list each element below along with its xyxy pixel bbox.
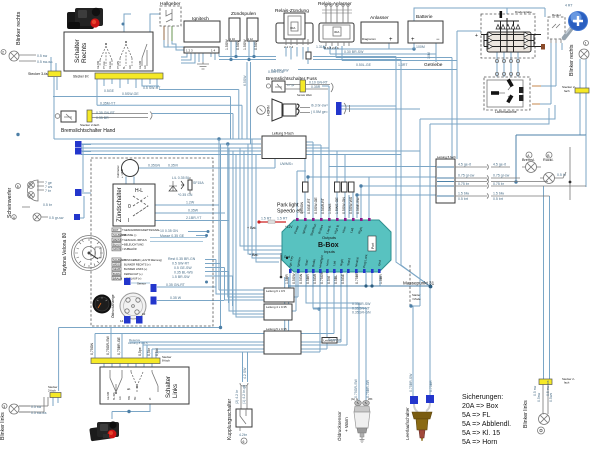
- svg-text:Inputs: Inputs: [324, 249, 335, 254]
- wire leitung boxes feeders from bbox: [290, 273, 306, 311]
- wire gray vertical 570: [569, 147, 571, 200]
- switch symbols inside Schalter rechts: [97, 41, 147, 69]
- svg-text:0.5GR: 0.5GR: [313, 273, 317, 284]
- wire Ignitech strip grounds: [199, 53, 203, 62]
- wire to leerlauf square 1: [413, 306, 420, 396]
- svg-text:0,5pe: 0,5pe: [138, 347, 142, 356]
- wire anlasser battery row 4: [342, 46, 457, 61]
- wire bbox left gnd drop long: [285, 277, 289, 341]
- svg-text:GELB: GELB: [113, 267, 120, 271]
- svg-text:1.5 RT: 1.5 RT: [261, 217, 272, 221]
- wire kupplung leads to box: [241, 386, 247, 409]
- wire cockpit table rows right: [157, 232, 264, 301]
- svg-text:0,5br: 0,5br: [147, 347, 151, 356]
- svg-text:0.5VI: 0.5VI: [327, 276, 331, 284]
- svg-text:8-fach: 8-fach: [162, 359, 170, 363]
- wire bus line 2: [81, 143, 261, 145]
- svg-text:WEISS: WEISS: [113, 238, 122, 242]
- wire schalter links bottom out: [112, 404, 150, 419]
- lamp Blinker links right: [523, 377, 575, 434]
- svg-text:4.7 ge: 4.7 ge: [287, 83, 295, 87]
- svg-text:0,75GR-SW: 0,75GR-SW: [106, 335, 110, 355]
- gauge Öldruckanzeige: [93, 294, 116, 318]
- wire cockpit drop 4: [233, 151, 264, 314]
- svg-text:0.35GN: 0.35GN: [148, 164, 161, 168]
- wire bus line 1: [54, 138, 261, 140]
- svg-text:Leitung 8 x 0.5: Leitung 8 x 0.5: [128, 341, 148, 345]
- node junction schalter links: [127, 410, 130, 413]
- wire coil labels: [225, 39, 258, 50]
- connector pins blue left: [75, 141, 82, 148]
- svg-text:0.35 W: 0.35 W: [170, 296, 182, 300]
- svg-text:Outputs: Outputs: [322, 235, 336, 240]
- svg-text:30A: 30A: [290, 26, 295, 30]
- switch Zündschalter: [113, 184, 155, 226]
- svg-text:+ USB: + USB: [120, 169, 124, 178]
- svg-text:YH-GE: YH-GE: [103, 61, 106, 69]
- harness Leitung 9-fach: [262, 132, 306, 167]
- svg-text:BLINKER RECHTS (+): BLINKER RECHTS (+): [124, 263, 151, 267]
- svg-text:0.5 brt: 0.5 brt: [458, 197, 468, 201]
- svg-text:1.5WS: 1.5WS: [328, 203, 332, 214]
- wire bus through harness to bbox top pins: [300, 139, 345, 218]
- svg-text:/ Mode: / Mode: [412, 297, 421, 301]
- svg-text:Leitung 5 x 0.35: Leitung 5 x 0.35: [266, 327, 287, 331]
- svg-text:14: 14: [120, 319, 124, 323]
- svg-text:Regler: Regler: [552, 13, 561, 17]
- svg-text:0.5GE: 0.5GE: [341, 273, 345, 284]
- svg-text:0.35R: 0.35R: [311, 85, 321, 89]
- svg-text:4.5 ge-rt: 4.5 ge-rt: [458, 163, 471, 167]
- wire coil bus 2: [219, 59, 276, 61]
- sensor Öldrucksensor: [336, 397, 373, 443]
- svg-text:1.5BR: 1.5BR: [379, 274, 383, 284]
- wire labels under bbox: [285, 271, 383, 284]
- svg-text:0.5GN: 0.5GN: [299, 273, 303, 284]
- wire Schalter rechts bar lower run: [142, 79, 239, 139]
- svg-text:GR: GR: [119, 396, 122, 400]
- wire horn to right: [341, 106, 420, 109]
- svg-text:GE-SW: GE-SW: [139, 60, 142, 69]
- svg-text:7 br: 7 br: [45, 189, 52, 193]
- fuse F1: [303, 182, 309, 192]
- wire getriebe ground: [435, 54, 437, 62]
- meter Voltmeter + USB: [116, 160, 139, 179]
- wire gnd bbox down: [280, 253, 282, 277]
- svg-text:GESCHW.-IMPULS: GESCHW.-IMPULS: [124, 238, 147, 242]
- svg-text:Port: Port: [371, 243, 375, 249]
- svg-text:Masse 0.35 GE: Masse 0.35 GE: [160, 234, 185, 238]
- wire blinker links bottom stubs: [19, 397, 48, 412]
- B-Box top pins: [293, 218, 370, 236]
- wire bus line 4: [81, 150, 261, 152]
- connector Stecker 2-fach (Blinker rechts): [562, 85, 589, 93]
- svg-text:Bremslichtschalter Hand: Bremslichtschalter Hand: [61, 128, 115, 134]
- svg-text:+: +: [389, 37, 393, 43]
- harness Leitung 5-fach: [436, 155, 456, 203]
- svg-text:0.5 sw: 0.5 sw: [31, 405, 42, 409]
- svg-text:0.5BR: 0.5BR: [306, 274, 310, 284]
- svg-text:0.30 BR-SW: 0.30 BR-SW: [344, 50, 364, 54]
- node junction bracket dot: [122, 23, 125, 26]
- svg-text:0.75 gr-sw: 0.75 gr-sw: [458, 174, 475, 178]
- svg-text:BRAUN: BRAUN: [113, 276, 122, 280]
- wire right lamp feed vertical: [585, 135, 587, 187]
- svg-text:0.35W: 0.35W: [188, 209, 199, 213]
- svg-text:+: +: [475, 33, 478, 39]
- svg-text:0.5 SW-RT: 0.5 SW-RT: [172, 262, 190, 266]
- svg-text:+12V: +12V: [285, 225, 293, 229]
- wire cockpit drop 1: [219, 139, 264, 290]
- svg-text:(G) G: (G) G: [351, 397, 358, 401]
- icon magnifier: [564, 11, 588, 38]
- wire zündschalter rows right: [155, 205, 229, 221]
- svg-text:0.10 GN-RT: 0.10 GN-RT: [309, 81, 329, 85]
- svg-text:I: I: [128, 218, 129, 224]
- switch Leerlaufschalter: [405, 395, 434, 441]
- svg-text:fach: fach: [564, 381, 570, 385]
- svg-text:Blinker links: Blinker links: [523, 400, 529, 428]
- node junction 411: [409, 304, 412, 307]
- wire bbox right pin up: [349, 177, 369, 218]
- wire Ignitech strip hooks: [181, 53, 215, 63]
- svg-text:0.5 brt: 0.5 brt: [493, 197, 503, 201]
- svg-text:Speedo etc.: Speedo etc.: [277, 209, 305, 215]
- svg-text:0.5 sw-ws: 0.5 sw-ws: [37, 60, 53, 64]
- wire park light red: [259, 221, 286, 223]
- wire table row drops: [216, 260, 264, 307]
- svg-text:ib.3 br-sw=: ib.3 br-sw=: [311, 104, 328, 108]
- wire right feeders down to Leitung 5-fach: [452, 58, 457, 160]
- svg-text:1.5SW: 1.5SW: [225, 39, 229, 50]
- svg-text:Batterie: Batterie: [416, 14, 433, 20]
- battery Batterie: [408, 14, 443, 43]
- switch unit Schalter rechts: [64, 32, 153, 71]
- svg-text:Blinker rechts: Blinker rechts: [16, 11, 22, 45]
- svg-text:RE-GE: RE-GE: [109, 61, 112, 69]
- wire bar feeders extra: [111, 328, 122, 358]
- wire oil sensor run 2: [313, 273, 366, 402]
- connector pins blue cockpit: [124, 278, 131, 285]
- node junction 319: [317, 307, 320, 310]
- svg-text:0.5GE: 0.5GE: [104, 89, 115, 93]
- svg-text:0.35M-YT: 0.35M-YT: [100, 102, 116, 106]
- svg-text:0.5SW: 0.5SW: [292, 273, 296, 284]
- motor Anlasser: [361, 15, 398, 43]
- svg-text:4 RT: 4 RT: [565, 4, 573, 8]
- table wire colors upper: [112, 228, 185, 251]
- harness Leitung 5x0.35: [264, 327, 341, 354]
- wire bus line 5: [81, 154, 261, 156]
- diode and fuse symbols cockpit: [169, 176, 204, 197]
- wire schalter links bar stubs into box: [104, 363, 152, 367]
- svg-text:1.5WS-GE: 1.5WS-GE: [335, 197, 339, 214]
- svg-text:10M: 10M: [427, 52, 431, 59]
- svg-text:0.5 sw-ws: 0.5 sw-ws: [546, 380, 550, 396]
- connector photo top-left: [67, 8, 103, 29]
- svg-text:1.5 blw: 1.5 blw: [458, 192, 470, 196]
- wire kupplung drop: [243, 352, 248, 382]
- svg-text:0.35 BR: 0.35 BR: [96, 116, 109, 120]
- svg-text:5A => Abblendl.: 5A => Abblendl.: [462, 421, 511, 428]
- connector round sensor plug: [120, 282, 146, 324]
- svg-text:fach: fach: [564, 89, 570, 93]
- lamp Blinker rechts (right edge): [569, 41, 589, 77]
- svg-text:0.5 sw-ws: 0.5 sw-ws: [31, 411, 47, 415]
- wire right vertical 396: [396, 57, 431, 287]
- fuse F2: [335, 182, 341, 192]
- sensor Hallgeber: [160, 1, 181, 26]
- switch unit Schalter links: [100, 367, 189, 404]
- svg-text:Leitung 6 x 0.5: Leitung 6 x 0.5: [266, 289, 285, 293]
- wire loop Bremslicht Hand enclosure: [53, 97, 231, 140]
- wire right big L to massepunkt: [516, 135, 586, 182]
- svg-text:1 16: 1 16: [230, 37, 236, 41]
- wire anlasser battery row 1: [324, 46, 414, 49]
- svg-text:YH-WS: YH-WS: [117, 61, 120, 69]
- wire fuss brake to bus: [322, 86, 329, 151]
- B-Box bottom pins: [288, 254, 382, 273]
- wire labels above bbox: [300, 196, 360, 214]
- wire diodenplatte plus left: [474, 30, 481, 32]
- svg-text:0.5SW-GE: 0.5SW-GE: [122, 92, 139, 96]
- svg-text:0.35GR-GN: 0.35GR-GN: [352, 311, 371, 315]
- node junction 308: [306, 175, 309, 178]
- svg-text:0.5 gr-sw: 0.5 gr-sw: [49, 216, 64, 220]
- connector rings diode drops: [495, 59, 519, 75]
- svg-text:Leitung 4 x 0.35: Leitung 4 x 0.35: [266, 305, 287, 309]
- wire hallgeber drops: [163, 26, 165, 40]
- svg-text:6.5SW: 6.5SW: [243, 75, 247, 86]
- svg-text:BELEUCHTUNG: BELEUCHTUNG: [124, 243, 144, 247]
- svg-text:0.5 sw: 0.5 sw: [533, 385, 537, 396]
- relay Relais-Anlasser: [318, 1, 354, 50]
- wire blinker rechts right drop: [580, 59, 586, 88]
- wire table row continuations: [131, 238, 207, 284]
- svg-text:100M: 100M: [416, 45, 425, 49]
- svg-text:Sensor: Sensor: [137, 282, 146, 286]
- svg-text:Diagramm: Diagramm: [362, 37, 376, 41]
- wire Bremslichtschalter Hand rows: [92, 114, 148, 118]
- svg-text:Anlasser: Anlasser: [370, 15, 389, 21]
- wire lamp to Stecker 3-fach: [51, 57, 56, 71]
- svg-text:1 12: 1 12: [248, 37, 254, 41]
- wire anlasser battery row 3: [336, 46, 452, 58]
- svg-text:1.3RT: 1.3RT: [398, 63, 408, 67]
- svg-text:Blinker rechts: Blinker rechts: [569, 44, 575, 76]
- wire lichtmaschine connector 1: [532, 85, 541, 87]
- ground bus Massepunkt 31: [288, 281, 435, 289]
- svg-text:Zündspulen: Zündspulen: [231, 11, 256, 17]
- svg-text:0.75 br: 0.75 br: [493, 182, 505, 186]
- node junction bottom left bus: [219, 326, 222, 329]
- wire lichtmaschine connector 2: [532, 103, 540, 105]
- wire regler run down-left long: [420, 105, 555, 306]
- regulator Regler: [548, 13, 565, 43]
- wire diodenplatte to lichtmaschine dashed drops: [497, 52, 518, 77]
- wire bottom bus 2: [129, 273, 341, 358]
- wire bbox bottom pin drops to bottom bus: [95, 273, 334, 358]
- wire battery plus to top bus 4RT: [414, 8, 545, 49]
- svg-text:2 1 7 4: 2 1 7 4: [284, 45, 294, 49]
- wire headlight connector to cockpit: [80, 145, 91, 219]
- svg-text:0.5GE-SW: 0.5GE-SW: [356, 197, 360, 214]
- svg-text:Leitung 5 fach: Leitung 5 fach: [437, 155, 456, 159]
- svg-text:4.2 SW: 4.2 SW: [243, 367, 247, 379]
- wire to leerlauf square 2: [429, 286, 431, 395]
- svg-text:Rechts: Rechts: [81, 42, 88, 63]
- node ib connector mid-top: [311, 102, 350, 115]
- horn Hupe: [257, 99, 310, 121]
- rectifier Diodenplatte: [475, 10, 545, 58]
- svg-text:4: 4: [13, 216, 15, 220]
- wire coil pin drops: [219, 41, 254, 60]
- svg-text:Kupplungsschalter: Kupplungsschalter: [227, 399, 233, 440]
- lamp Blinker rechts top-left: [1, 50, 19, 62]
- svg-text:0.75BR-GR: 0.75BR-GR: [366, 379, 370, 398]
- svg-text:5: 5: [17, 185, 19, 189]
- svg-text:− Bat.: − Bat.: [249, 253, 259, 257]
- svg-text:Schalter: Schalter: [74, 38, 81, 63]
- svg-text:Rückl.: Rückl.: [543, 158, 554, 162]
- wire bottom bus 4: [152, 273, 327, 358]
- svg-text:1.5 RT: 1.5 RT: [277, 217, 288, 221]
- svg-text:Stecker 2-fach: Stecker 2-fach: [80, 123, 100, 127]
- svg-text:0.5SW-GE: 0.5SW-GE: [314, 197, 318, 214]
- svg-text:−: −: [436, 37, 440, 43]
- svg-text:BR: BR: [134, 396, 137, 400]
- node junction 361: [359, 184, 362, 187]
- svg-text:1 4: 1 4: [211, 49, 216, 53]
- svg-text:Öldruckanzeige: Öldruckanzeige: [111, 294, 115, 318]
- switch Bremslichtschalter Fuss: [266, 69, 333, 98]
- cockpit area dashed border: [91, 158, 213, 326]
- svg-text:0.75 br: 0.75 br: [458, 182, 470, 186]
- svg-text:Leerlaufschalter: Leerlaufschalter: [405, 407, 410, 440]
- svg-text:0.75GR-SW: 0.75GR-SW: [354, 378, 358, 398]
- wire massepunkt feeders: [366, 273, 380, 286]
- wire right vertical 401: [401, 60, 431, 287]
- generator Lichtmaschine: [484, 77, 530, 114]
- switch Bremslichtschalter Hand: [55, 110, 115, 134]
- wire row y195: [357, 195, 438, 218]
- svg-text:0.5GE-RT: 0.5GE-RT: [307, 197, 311, 214]
- svg-text:Blinker links: Blinker links: [0, 412, 6, 440]
- wire rows right of Leitung 5-fach: [455, 163, 586, 202]
- harness Leitung 4x0.35: [264, 304, 292, 320]
- svg-text:VI: VI: [149, 397, 152, 400]
- svg-text:1.5SW: 1.5SW: [243, 39, 247, 50]
- svg-text:TANKGEBER (+12V B.Warnung): TANKGEBER (+12V B.Warnung): [124, 258, 162, 262]
- wire left vertical feeder: [54, 77, 57, 139]
- svg-text:Getriebe: Getriebe: [424, 62, 443, 68]
- svg-text:+ Bat.: + Bat.: [247, 226, 257, 230]
- node bus junction 2: [226, 142, 229, 145]
- wire labels above bottom bar: [90, 335, 159, 356]
- wire coil feeder verticals: [247, 62, 251, 144]
- svg-text:0,75GN: 0,75GN: [90, 342, 94, 355]
- svg-text:0.5 br: 0.5 br: [43, 203, 53, 207]
- controller B-Box: [282, 220, 391, 272]
- relay Relais-Zündung: [275, 8, 313, 49]
- svg-text:4.5 ge-rt: 4.5 ge-rt: [493, 163, 506, 167]
- wire below small yellow bar: [53, 397, 58, 406]
- node table junctions: [207, 230, 210, 233]
- text Sicherungen fuse list: [462, 394, 511, 446]
- wire regler run 2: [430, 108, 549, 286]
- svg-text:20A => Box: 20A => Box: [462, 403, 499, 410]
- svg-text:1 2 3: 1 2 3: [186, 49, 193, 53]
- svg-text:(2) 4.2 br: (2) 4.2 br: [235, 389, 239, 404]
- svg-text:ZUBEHÖR: ZUBEHÖR: [124, 247, 137, 251]
- svg-text:Sicherungen:: Sicherungen:: [462, 394, 503, 401]
- svg-text:0: 0: [128, 204, 131, 210]
- wire bottom bus 5: [156, 273, 320, 358]
- svg-text:0.35BR-SW: 0.35BR-SW: [352, 302, 371, 306]
- B-Box battery stubs: [247, 226, 288, 259]
- svg-text:0.35 GN-RT: 0.35 GN-RT: [166, 283, 186, 287]
- svg-text:GE-SW: GE-SW: [107, 391, 110, 400]
- svg-text:0.5SW-WS: 0.5SW-WS: [349, 196, 353, 214]
- svg-text:BL-WS: BL-WS: [113, 392, 116, 400]
- node coil junctions: [229, 58, 232, 61]
- wire voltmeter drops: [126, 168, 275, 184]
- svg-text:Lichtmaschine: Lichtmaschine: [495, 110, 517, 114]
- svg-text:Scheinwerfer: Scheinwerfer: [7, 187, 13, 218]
- harness label Leitung oil: [322, 338, 337, 344]
- svg-text:0.75BR-SW: 0.75BR-SW: [409, 373, 413, 392]
- ground Ignitech: [197, 62, 209, 69]
- wire blinker rechts below bar: [580, 93, 586, 135]
- svg-text:1.5 BR-SW: 1.5 BR-SW: [172, 275, 190, 279]
- svg-text:0,75BR-GE: 0,75BR-GE: [117, 336, 121, 355]
- svg-text:0.75BR: 0.75BR: [355, 272, 359, 284]
- wire bottom bus 3: [143, 273, 347, 358]
- svg-text:Leitung 9-fach: Leitung 9-fach: [272, 132, 294, 136]
- connector Stecker 8-fach bottom yellow bar: [91, 355, 172, 364]
- svg-text:H-L: H-L: [135, 188, 143, 194]
- connector Stecker 8-fach top yellow bar: [73, 73, 163, 79]
- svg-text:FERNLICHT (+): FERNLICHT (+): [124, 272, 143, 276]
- fuse F4: [349, 182, 355, 192]
- wire oil sensor run 1: [306, 273, 359, 402]
- svg-text:6: 6: [243, 440, 245, 444]
- svg-text:0.35 BL-WS: 0.35 BL-WS: [174, 271, 194, 275]
- wire bus line 3: [81, 147, 261, 149]
- wire cockpit drop 2: [228, 144, 264, 297]
- fuse F3: [342, 182, 348, 192]
- lamp Blinker links bottom-left: [0, 404, 47, 441]
- gauge Speedometer Daytona: [62, 233, 107, 275]
- switch Kupplungsschalter: [227, 367, 252, 444]
- wire Hand rows continuation: [152, 114, 233, 140]
- svg-text:4.2br: 4.2br: [239, 433, 248, 437]
- svg-text:0.5GR-RT: 0.5GR-RT: [321, 197, 325, 214]
- svg-text:0.5sw: 0.5sw: [537, 392, 541, 402]
- svg-text:0.5 GE-SW: 0.5 GE-SW: [174, 266, 192, 270]
- wire jog 319: [313, 309, 319, 311]
- wire relais zündung bus to right verticals: [313, 57, 401, 60]
- svg-text:BLINKER LINKS (+): BLINKER LINKS (+): [124, 267, 147, 271]
- svg-text:L/L 0.35 BL: L/L 0.35 BL: [172, 176, 190, 180]
- connector Stecker 2-fach bottom-left: [48, 385, 61, 398]
- wire cockpit drop 3: [229, 148, 264, 311]
- wire row y177 to leitung5fach: [308, 177, 438, 192]
- svg-text:Daytona Velona 80: Daytona Velona 80: [62, 233, 68, 275]
- svg-text:2: 2: [2, 51, 4, 55]
- wire bbox pin 297 up: [275, 159, 297, 219]
- svg-text:B-Box: B-Box: [318, 242, 339, 249]
